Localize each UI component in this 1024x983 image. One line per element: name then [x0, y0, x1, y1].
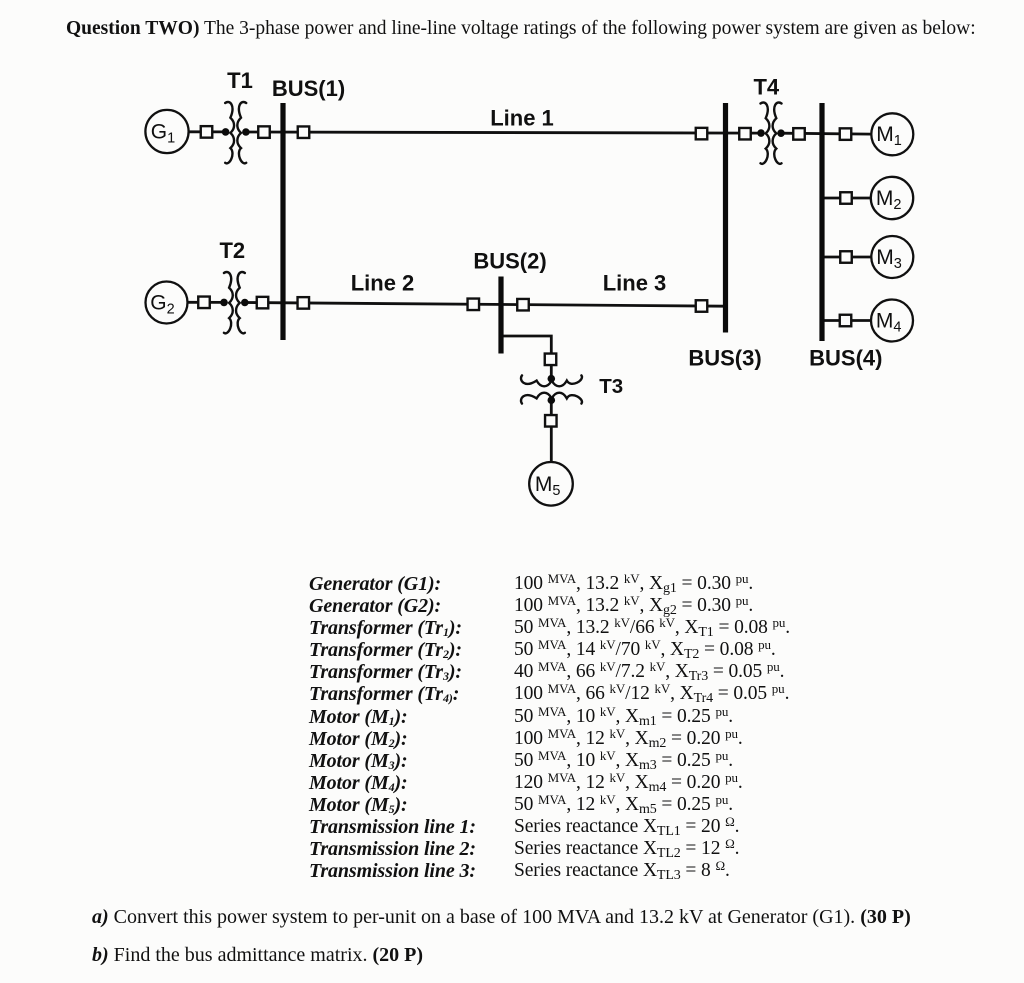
- svg-text:T1: T1: [227, 68, 253, 93]
- svg-text:BUS(1): BUS(1): [272, 76, 345, 101]
- svg-text:T4: T4: [753, 75, 779, 100]
- svg-text:T2: T2: [219, 238, 245, 263]
- svg-text:T3: T3: [599, 375, 623, 398]
- svg-text:Line 1: Line 1: [490, 106, 554, 131]
- svg-text:Line 2: Line 2: [351, 271, 415, 296]
- svg-text:BUS(3): BUS(3): [688, 346, 761, 371]
- svg-text:Line 3: Line 3: [603, 271, 667, 296]
- svg-text:BUS(4): BUS(4): [809, 346, 882, 371]
- svg-text:BUS(2): BUS(2): [473, 249, 546, 274]
